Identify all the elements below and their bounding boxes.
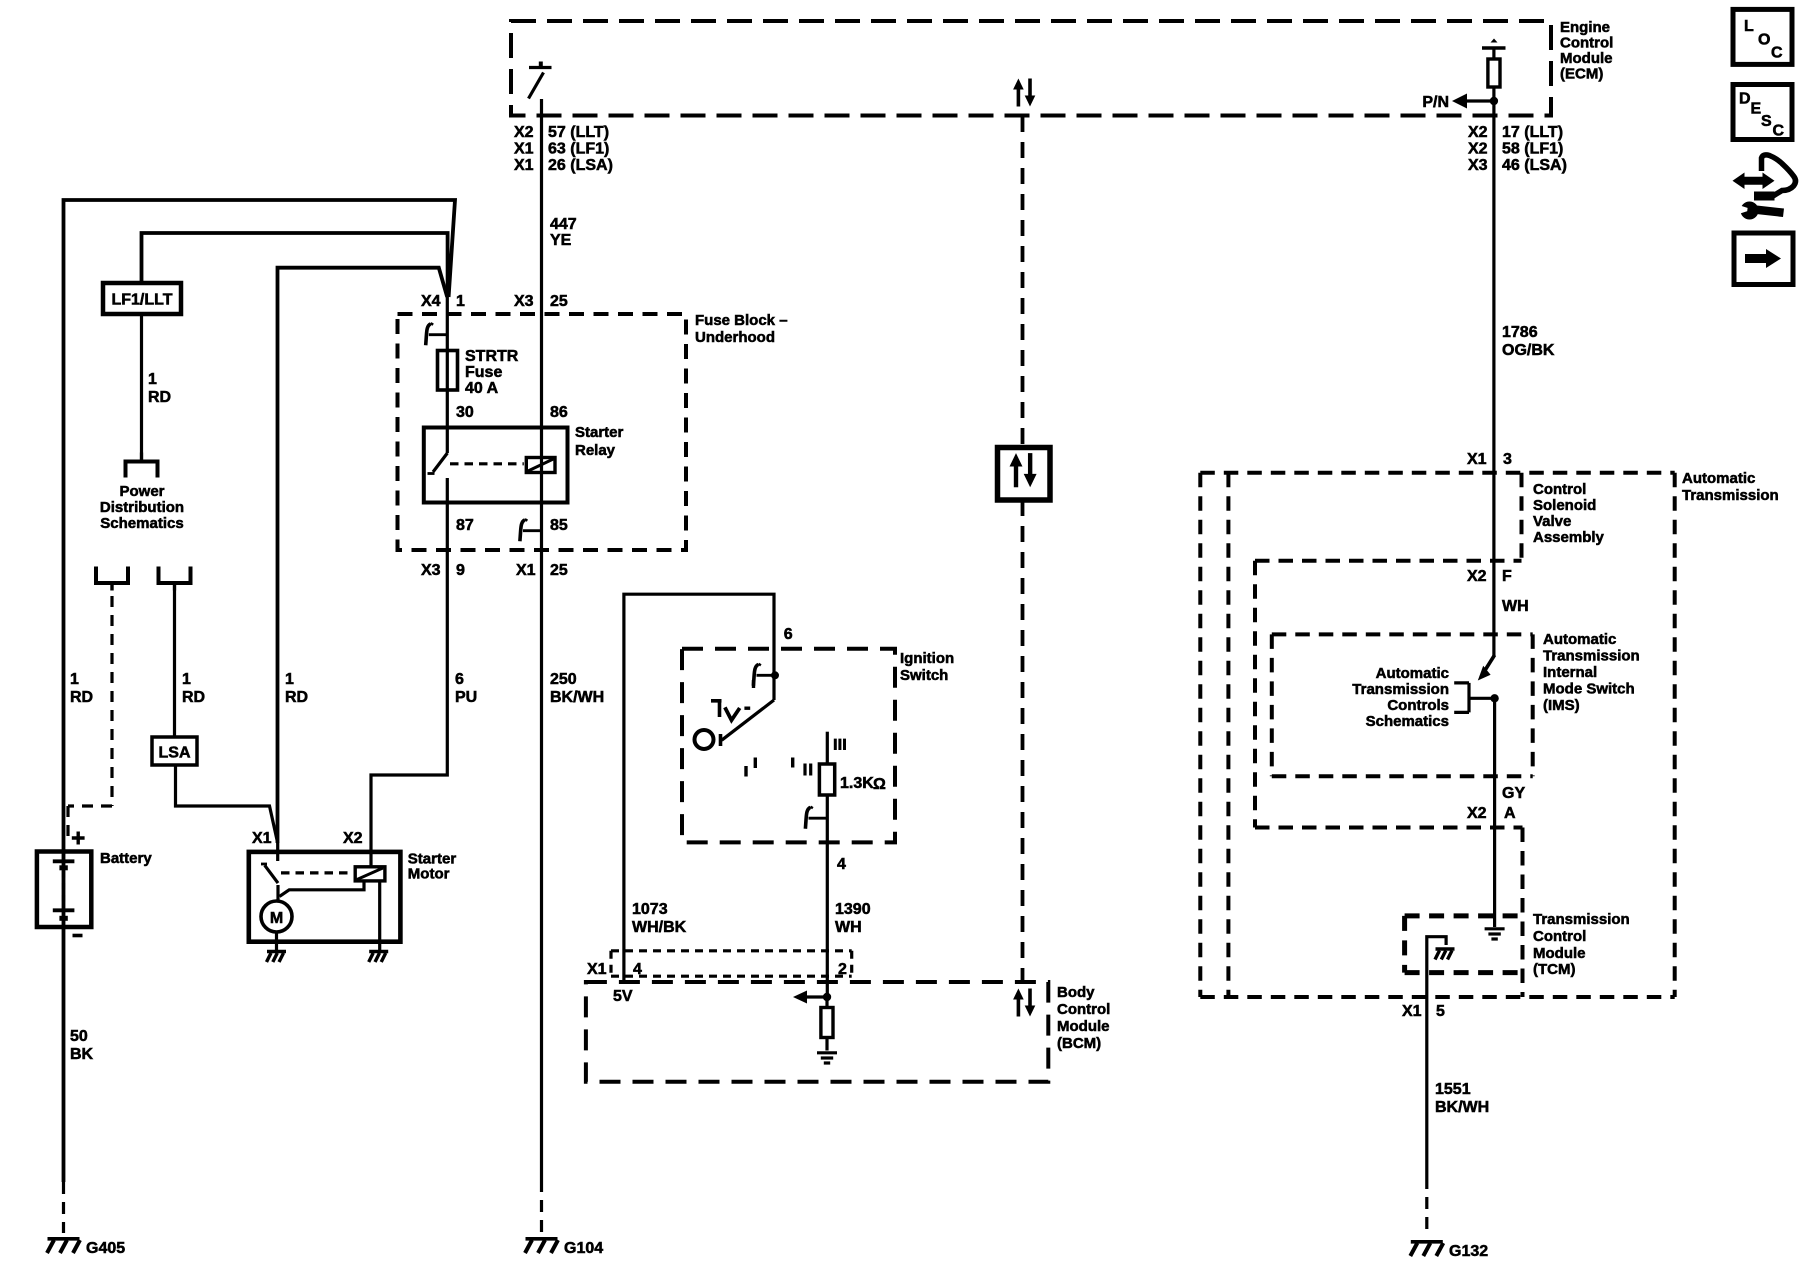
svg-text:X2: X2 — [1468, 141, 1488, 158]
svg-text:1390: 1390 — [835, 901, 871, 918]
svg-text:25: 25 — [550, 293, 568, 310]
svg-text:(ECM): (ECM) — [1560, 66, 1603, 83]
svg-text:447: 447 — [550, 216, 577, 233]
svg-text:G132: G132 — [1449, 1243, 1488, 1260]
svg-text:X1: X1 — [587, 961, 607, 978]
svg-text:X4: X4 — [421, 293, 441, 310]
svg-text:Module: Module — [1533, 945, 1586, 962]
svg-text:C: C — [1771, 45, 1783, 62]
svg-text:Schematics: Schematics — [1366, 713, 1449, 730]
svg-text:Controls: Controls — [1387, 697, 1449, 714]
svg-text:Engine: Engine — [1560, 19, 1610, 36]
svg-text:26 (LSA): 26 (LSA) — [548, 157, 613, 174]
svg-text:Relay: Relay — [575, 442, 616, 459]
svg-text:X2: X2 — [1467, 568, 1487, 585]
svg-text:A: A — [1504, 805, 1516, 822]
svg-text:46 (LSA): 46 (LSA) — [1502, 157, 1567, 174]
svg-text:X2: X2 — [1467, 805, 1487, 822]
svg-text:GY: GY — [1502, 785, 1525, 802]
svg-text:Solenoid: Solenoid — [1533, 497, 1596, 514]
svg-text:YE: YE — [550, 232, 572, 249]
svg-text:BK/WH: BK/WH — [550, 689, 604, 706]
svg-text:X1: X1 — [514, 141, 534, 158]
svg-text:WH/BK: WH/BK — [632, 919, 687, 936]
svg-text:Motor: Motor — [408, 866, 450, 883]
svg-text:50: 50 — [70, 1028, 88, 1045]
svg-text:Ω: Ω — [873, 776, 886, 793]
svg-text:Starter: Starter — [575, 424, 624, 441]
svg-text:(IMS): (IMS) — [1543, 697, 1580, 714]
svg-text:O: O — [1758, 32, 1770, 49]
svg-text:X1: X1 — [1402, 1003, 1422, 1020]
svg-text:X1: X1 — [1467, 451, 1487, 468]
svg-text:BK/WH: BK/WH — [1435, 1099, 1489, 1116]
svg-text:Control: Control — [1533, 928, 1586, 945]
svg-text:4: 4 — [837, 856, 846, 873]
svg-text:250: 250 — [550, 671, 577, 688]
svg-text:F: F — [1502, 568, 1512, 585]
svg-text:X1: X1 — [516, 562, 536, 579]
svg-text:Internal: Internal — [1543, 664, 1597, 681]
svg-text:RD: RD — [182, 689, 205, 706]
svg-text:X1: X1 — [514, 157, 534, 174]
svg-text:Mode Switch: Mode Switch — [1543, 681, 1635, 698]
svg-text:Automatic: Automatic — [1376, 665, 1449, 682]
svg-text:Ignition: Ignition — [900, 650, 954, 667]
svg-text:Schematics: Schematics — [100, 515, 183, 532]
svg-text:Control: Control — [1533, 481, 1586, 498]
svg-text:63 (LF1): 63 (LF1) — [548, 141, 609, 158]
svg-text:5V: 5V — [613, 988, 633, 1005]
svg-text:87: 87 — [456, 517, 474, 534]
svg-text:LSA: LSA — [159, 745, 191, 762]
svg-text:Module: Module — [1560, 50, 1613, 67]
svg-text:G405: G405 — [86, 1240, 125, 1257]
svg-text:X2: X2 — [514, 124, 534, 141]
svg-text:1551: 1551 — [1435, 1081, 1471, 1098]
svg-text:Body: Body — [1057, 984, 1095, 1001]
svg-text:1: 1 — [285, 671, 294, 688]
svg-text:Assembly: Assembly — [1533, 529, 1605, 546]
svg-text:Module: Module — [1057, 1018, 1110, 1035]
svg-text:D: D — [1739, 91, 1751, 108]
svg-text:X2: X2 — [1468, 124, 1488, 141]
svg-text:E: E — [1751, 101, 1762, 118]
svg-text:X3: X3 — [421, 562, 441, 579]
svg-text:1: 1 — [70, 671, 79, 688]
svg-text:Switch: Switch — [900, 667, 948, 684]
svg-text:Control: Control — [1057, 1001, 1110, 1018]
svg-text:6: 6 — [784, 626, 793, 643]
svg-text:OG/BK: OG/BK — [1502, 342, 1555, 359]
svg-text:BK: BK — [70, 1046, 94, 1063]
svg-text:P/N: P/N — [1422, 94, 1449, 111]
svg-text:Fuse Block –: Fuse Block – — [695, 312, 788, 329]
svg-text:58 (LF1): 58 (LF1) — [1502, 141, 1563, 158]
svg-text:LF1/LLT: LF1/LLT — [111, 292, 172, 309]
svg-text:G104: G104 — [564, 1240, 603, 1257]
svg-text:Transmission: Transmission — [1682, 487, 1779, 504]
svg-text:86: 86 — [550, 404, 568, 421]
svg-text:X3: X3 — [1468, 157, 1488, 174]
svg-text:1: 1 — [148, 371, 157, 388]
svg-text:Fuse: Fuse — [465, 364, 502, 381]
svg-text:Transmission: Transmission — [1533, 911, 1630, 928]
svg-text:1: 1 — [456, 293, 465, 310]
svg-text:L: L — [1744, 18, 1754, 35]
svg-text:X2: X2 — [343, 830, 363, 847]
svg-text:17 (LLT): 17 (LLT) — [1502, 124, 1563, 141]
svg-text:C: C — [1773, 123, 1785, 140]
svg-text:X3: X3 — [514, 293, 534, 310]
svg-text:M: M — [270, 910, 283, 927]
svg-text:RD: RD — [148, 389, 171, 406]
svg-text:Automatic: Automatic — [1543, 631, 1616, 648]
svg-text:85: 85 — [550, 517, 568, 534]
svg-text:(BCM): (BCM) — [1057, 1035, 1101, 1052]
svg-text:3: 3 — [1503, 451, 1512, 468]
svg-text:Distribution: Distribution — [100, 499, 184, 516]
svg-text:1786: 1786 — [1502, 324, 1538, 341]
svg-text:S: S — [1761, 113, 1772, 130]
svg-text:Underhood: Underhood — [695, 329, 775, 346]
svg-text:Valve: Valve — [1533, 513, 1571, 530]
svg-text:1: 1 — [182, 671, 191, 688]
svg-text:Automatic: Automatic — [1682, 470, 1755, 487]
svg-text:2: 2 — [838, 961, 847, 978]
svg-text:RD: RD — [285, 689, 308, 706]
svg-text:1.3K: 1.3K — [840, 775, 874, 792]
svg-text:1073: 1073 — [632, 901, 668, 918]
svg-text:5: 5 — [1436, 1003, 1445, 1020]
svg-text:4: 4 — [633, 961, 642, 978]
svg-text:6: 6 — [455, 671, 464, 688]
svg-text:9: 9 — [456, 562, 465, 579]
svg-text:Transmission: Transmission — [1543, 648, 1640, 665]
svg-text:25: 25 — [550, 562, 568, 579]
svg-text:X1: X1 — [252, 830, 272, 847]
svg-text:PU: PU — [455, 689, 477, 706]
svg-text:WH: WH — [835, 919, 862, 936]
svg-text:RD: RD — [70, 689, 93, 706]
svg-text:Transmission: Transmission — [1352, 681, 1449, 698]
svg-text:40 A: 40 A — [465, 380, 499, 397]
svg-text:(TCM): (TCM) — [1533, 961, 1575, 978]
svg-text:WH: WH — [1502, 598, 1529, 615]
svg-text:STRTR: STRTR — [465, 348, 519, 365]
svg-text:57 (LLT): 57 (LLT) — [548, 124, 609, 141]
svg-text:Battery: Battery — [100, 850, 152, 867]
svg-text:Control: Control — [1560, 35, 1613, 52]
svg-text:30: 30 — [456, 404, 474, 421]
svg-text:Power: Power — [119, 483, 164, 500]
